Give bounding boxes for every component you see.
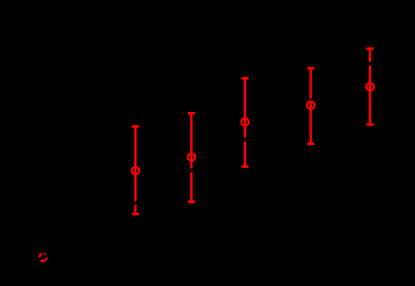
- marker ring point 4: [307, 101, 315, 109]
- error bar point 4 (x=310.7): vertical line: [310, 68, 312, 144]
- error bar point 1 (x=135.4): vertical line: [134, 127, 136, 215]
- marker ring point 1: [132, 167, 140, 175]
- error bar point 2: top cap: [188, 112, 195, 115]
- error bar point 4: top cap: [307, 67, 314, 70]
- error bar point 5: bottom cap: [367, 123, 374, 126]
- marker ring point 5: [366, 83, 374, 91]
- error bar point 3: top cap: [242, 77, 249, 80]
- error bar point 2 (x=191.4): vertical line: [190, 113, 192, 202]
- marker ring point 2: [188, 153, 196, 161]
- error bar point 1: top cap: [132, 125, 139, 128]
- error bar point 2: bottom cap: [188, 200, 195, 203]
- error bar point 4: bottom cap: [307, 142, 314, 145]
- error bar point 5: top cap: [367, 47, 374, 50]
- data marker 6 ring (bottom-left, drawn under the black fit line): [39, 254, 47, 262]
- error bar point 3 (x=245.0): vertical line: [244, 78, 246, 166]
- error bar point 5 (x=370.0): vertical line: [369, 49, 371, 125]
- black vertical segment cutting top of marker 6: [42, 246, 44, 257]
- marker ring point 3: [241, 118, 249, 126]
- error bar point 1: bottom cap: [132, 213, 139, 216]
- error bar point 3: bottom cap: [242, 165, 249, 168]
